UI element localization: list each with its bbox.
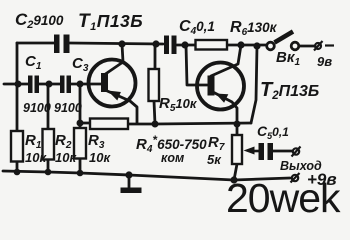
wire left rail corner vertical [16, 43, 19, 84]
capacitor C2 [54, 35, 70, 54]
wire R1 top stem [16, 84, 19, 131]
resistor R2 [43, 129, 55, 160]
ground stem [128, 175, 131, 188]
capacitor C3 [60, 76, 71, 94]
node T2 collector [237, 41, 244, 48]
wire R3 bottom stem [79, 158, 82, 173]
terminal minus 9v [314, 41, 334, 51]
svg-text:9100: 9100 [23, 101, 51, 115]
wire T2 base drop from C4-R6 node [186, 45, 207, 85]
svg-text:C29100: C29100 [15, 10, 64, 31]
node emitter bus top [253, 42, 260, 49]
transistor T1 [89, 60, 136, 107]
node R3 top / R4 left [77, 120, 84, 127]
wire R1 bottom stem [16, 161, 19, 172]
wire C3 to T1 base [71, 83, 101, 86]
capacitor C4 [164, 36, 177, 55]
svg-text:20wek: 20wek [226, 175, 341, 219]
wire T2 collector riser [211, 45, 241, 76]
wire T2 emitter lead [211, 91, 237, 124]
svg-text:10к: 10к [89, 150, 111, 165]
terminal plus 9v [291, 173, 300, 183]
node R3 bottom [77, 170, 84, 177]
node R7 bottom [230, 176, 237, 183]
svg-text:9в: 9в [317, 54, 332, 69]
wire node C3 down to middle rail [79, 84, 82, 123]
R7 wiper arrow [244, 147, 260, 155]
svg-text:9100: 9100 [54, 101, 82, 115]
switch Vk1 [267, 32, 299, 50]
wire middle rail R4 to emitter bus corner [128, 123, 251, 124]
resistor R4 [90, 119, 128, 130]
svg-text:C50,1: C50,1 [257, 123, 289, 141]
wire top rail R6 to switch [227, 44, 266, 47]
resistor R6 [196, 40, 228, 50]
node ground junction [125, 171, 132, 178]
wire middle rail node to R4 [80, 122, 90, 125]
node T1 collector [118, 40, 125, 47]
wire input line left edge [4, 83, 28, 86]
node C3 right / R3 [77, 81, 84, 88]
svg-text:T2П13Б: T2П13Б [260, 79, 319, 102]
wire top rail C2 to T1 collector node [70, 43, 163, 44]
ground [121, 188, 142, 194]
node R2 bottom [45, 169, 52, 176]
wire T1 collector riser [104, 44, 123, 75]
wire R2 bottom stem [47, 159, 50, 172]
node C1-C3 / R2 top [46, 81, 53, 88]
node R4-R5 emitter [152, 121, 159, 128]
wire emitter bus riser to switch node [251, 46, 257, 123]
capacitor C5 [259, 143, 274, 160]
resistor R3 [74, 128, 86, 159]
wire bottom rail [3, 171, 234, 180]
node C1 left [15, 81, 22, 88]
capacitor C1 [28, 76, 39, 94]
wire top rail left segment [17, 42, 54, 45]
wire switch to minus terminal [300, 45, 315, 48]
wire R3 top stem [79, 123, 82, 128]
resistor R1 [11, 131, 23, 162]
node C4-R6 / T2 base [181, 41, 188, 48]
wire bottom rail to plus terminal [234, 178, 290, 180]
transistor T2 [197, 63, 244, 110]
wire R7 bottom stem [234, 164, 237, 180]
svg-text:ком: ком [161, 151, 184, 165]
wire C5 to output terminal [273, 150, 292, 153]
svg-text:10к: 10к [25, 150, 47, 165]
svg-text:T1П13Б: T1П13Б [78, 11, 143, 33]
node R5 top [152, 40, 159, 47]
resistor R7 potentiometer body [232, 135, 242, 164]
resistor R5 [149, 69, 160, 101]
node T2 emitter / R7 [234, 121, 241, 128]
wire top rail C4 to R6 [177, 44, 196, 47]
node R1 bottom [14, 169, 21, 176]
wire R5 bottom stem [154, 101, 155, 124]
svg-text:5к: 5к [207, 152, 222, 167]
svg-text:10к: 10к [55, 150, 77, 165]
terminal output [292, 147, 301, 157]
wire C1 to C3 [39, 83, 60, 86]
wire R5 top stem [154, 44, 157, 69]
wire R7 top stem [236, 124, 239, 135]
wire R2 top stem [47, 84, 50, 129]
wire T1 emitter lead [105, 90, 137, 123]
